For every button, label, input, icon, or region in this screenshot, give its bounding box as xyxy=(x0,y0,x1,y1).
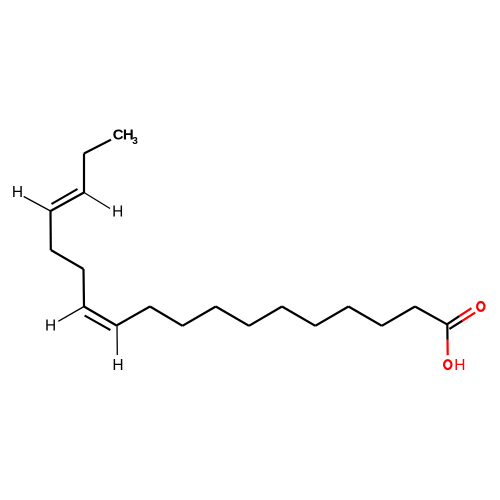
svg-text:CH: CH xyxy=(113,127,133,144)
bond C2-C1 xyxy=(415,307,447,325)
svg-text:H: H xyxy=(45,317,56,334)
bond C14-C13 xyxy=(51,250,84,269)
bond C5-C4 xyxy=(315,307,348,326)
bond C10-C9 xyxy=(150,307,183,326)
atom label CH3 xyxy=(113,127,139,148)
double bond C1=O inner line black half xyxy=(449,321,462,329)
bond C1-OH red half xyxy=(446,340,448,355)
bond C8-C7 xyxy=(216,307,249,326)
svg-text:H: H xyxy=(112,357,123,374)
bond C1-OH black half xyxy=(446,324,448,340)
double bond C16=C15 main line xyxy=(51,193,85,212)
bond C13-C12 xyxy=(82,269,85,307)
svg-text:H: H xyxy=(454,357,465,374)
svg-text:H: H xyxy=(112,204,123,221)
bond C16-H xyxy=(84,193,110,209)
bond C9-C8 xyxy=(183,307,216,326)
bond C3-C2 xyxy=(382,307,415,326)
bond C11-C10 xyxy=(117,307,151,326)
bond C18(CH3)-C17 xyxy=(84,140,111,154)
bond C15-C14 xyxy=(49,211,51,250)
bond C12-H xyxy=(58,307,84,322)
bond C17-C16 xyxy=(83,154,85,193)
double bond C1=O main line black half xyxy=(447,316,459,324)
atom label O (carbonyl) xyxy=(477,302,484,311)
double bond C1=O inner line red half xyxy=(462,313,475,321)
double bond C1=O main line red half xyxy=(459,308,471,316)
bond C4-C3 xyxy=(349,307,382,326)
bond C6-C5 xyxy=(282,307,315,326)
bond C15-H xyxy=(24,197,51,212)
atom label OH (hydroxyl) xyxy=(444,357,465,374)
svg-text:3: 3 xyxy=(132,136,138,147)
svg-text:H: H xyxy=(12,184,23,201)
bond C7-C6 xyxy=(249,307,282,326)
bond C11-H xyxy=(116,326,118,356)
double bond C12=C11 inner line xyxy=(85,316,111,331)
double bond C16=C15 inner line xyxy=(52,189,78,204)
double bond C12=C11 main line xyxy=(84,307,117,326)
